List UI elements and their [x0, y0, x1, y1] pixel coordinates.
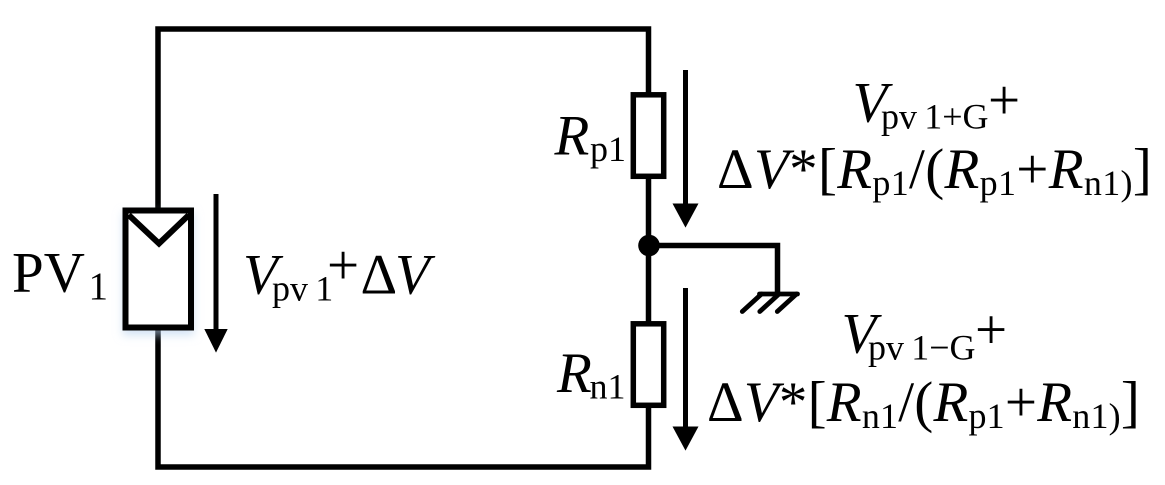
svg-text:n1: n1 — [590, 367, 626, 407]
node junction dot — [638, 235, 660, 257]
label Rn1 value — [556, 342, 626, 407]
svg-text:R: R — [556, 342, 592, 405]
svg-text:pv 1+G: pv 1+G — [881, 97, 989, 137]
svg-text:+: + — [988, 69, 1020, 132]
arrow voltage across PV1 — [204, 194, 227, 353]
resistor Rp1 — [633, 95, 663, 177]
arrow voltage across Rn1 — [673, 288, 699, 451]
svg-text:Δ: Δ — [361, 244, 398, 307]
label PV1 — [12, 242, 108, 309]
svg-text:1: 1 — [89, 265, 109, 308]
svg-text:ΔV*[Rn1/(Rp1+Rn1)]: ΔV*[Rn1/(Rp1+Rn1)] — [707, 371, 1140, 436]
ground — [742, 294, 797, 312]
resistor Rn1 — [633, 324, 663, 406]
svg-text:pv 1−G: pv 1−G — [868, 328, 976, 368]
label Rp1 value — [554, 105, 627, 170]
svg-text:p1: p1 — [590, 129, 626, 169]
arrow voltage across Rp1 — [673, 70, 699, 228]
svg-text:V: V — [395, 244, 436, 307]
label Vpv1-G+ — [842, 299, 1008, 368]
wire top loop (left vertical + top horizontal + right drop to Rp1) — [158, 29, 649, 212]
svg-text:ΔV*[Rp1/(Rp1+Rn1)]: ΔV*[Rp1/(Rp1+Rn1)] — [717, 138, 1152, 203]
svg-text:pv 1: pv 1 — [272, 269, 333, 309]
svg-text:PV: PV — [12, 242, 85, 305]
label Vpv1+dV — [243, 234, 436, 309]
wire middle segment between Rp1 and Rn1 through node — [646, 177, 652, 324]
svg-text:+: + — [327, 234, 359, 297]
PV source PV1 — [126, 211, 192, 328]
svg-text:R: R — [554, 105, 590, 168]
svg-text:+: + — [975, 299, 1007, 362]
label Vpv1+G+ — [853, 69, 1021, 137]
wire ground branch — [646, 246, 778, 293]
wire bottom loop (left vertical + bottom horizontal + right rise to Rn1) — [158, 328, 649, 467]
